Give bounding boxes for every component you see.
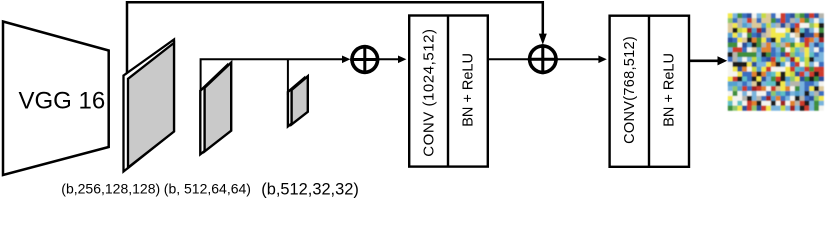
conv block 2 box [610, 16, 689, 167]
svg-text:VGG 16: VGG 16 [19, 88, 106, 115]
svg-text:(b,512,32,32): (b,512,32,32) [261, 180, 359, 198]
adder 1 circle-plus [350, 45, 379, 74]
svg-text:BN + ReLU: BN + ReLU [461, 53, 477, 127]
arrowhead down into adder 2 [539, 34, 547, 45]
feature map 1 back sheet [124, 40, 175, 172]
svg-text:CONV(768,512): CONV(768,512) [622, 36, 638, 144]
conv block 1 box [409, 16, 488, 167]
adder 2 circle-plus [528, 44, 558, 74]
svg-text:BN + ReLU: BN + ReLU [662, 53, 678, 127]
svg-text:(b,256,128,128): (b,256,128,128) [61, 180, 160, 196]
feature map 2 front sheet [205, 63, 232, 152]
feature map 3 back sheet [288, 78, 304, 126]
arrow adder 2 to conv block 2 [557, 56, 607, 64]
skip connection wire from feature map 1 to adder 2 [127, 2, 543, 75]
arrow adder 1 to conv block 1 [379, 56, 406, 64]
feature map 1 front sheet [128, 43, 174, 168]
wire stub down to feature map 3 [287, 59, 289, 95]
wire conv block 1 to adder 2 [488, 58, 529, 60]
svg-text:(b, 512,64,64): (b, 512,64,64) [164, 180, 251, 196]
wire from feature map 2 to adder 1 [201, 59, 344, 93]
feature map 2 back sheet [200, 65, 227, 154]
feature map 3 front sheet [292, 76, 308, 124]
arrow conv block 2 to output image [689, 56, 728, 65]
arrowhead into adder 1 [342, 56, 350, 64]
output image mosaic [728, 13, 824, 110]
svg-text:CONV (1024,512): CONV (1024,512) [421, 28, 438, 156]
VGG 16 encoder trapezoid [3, 22, 109, 176]
